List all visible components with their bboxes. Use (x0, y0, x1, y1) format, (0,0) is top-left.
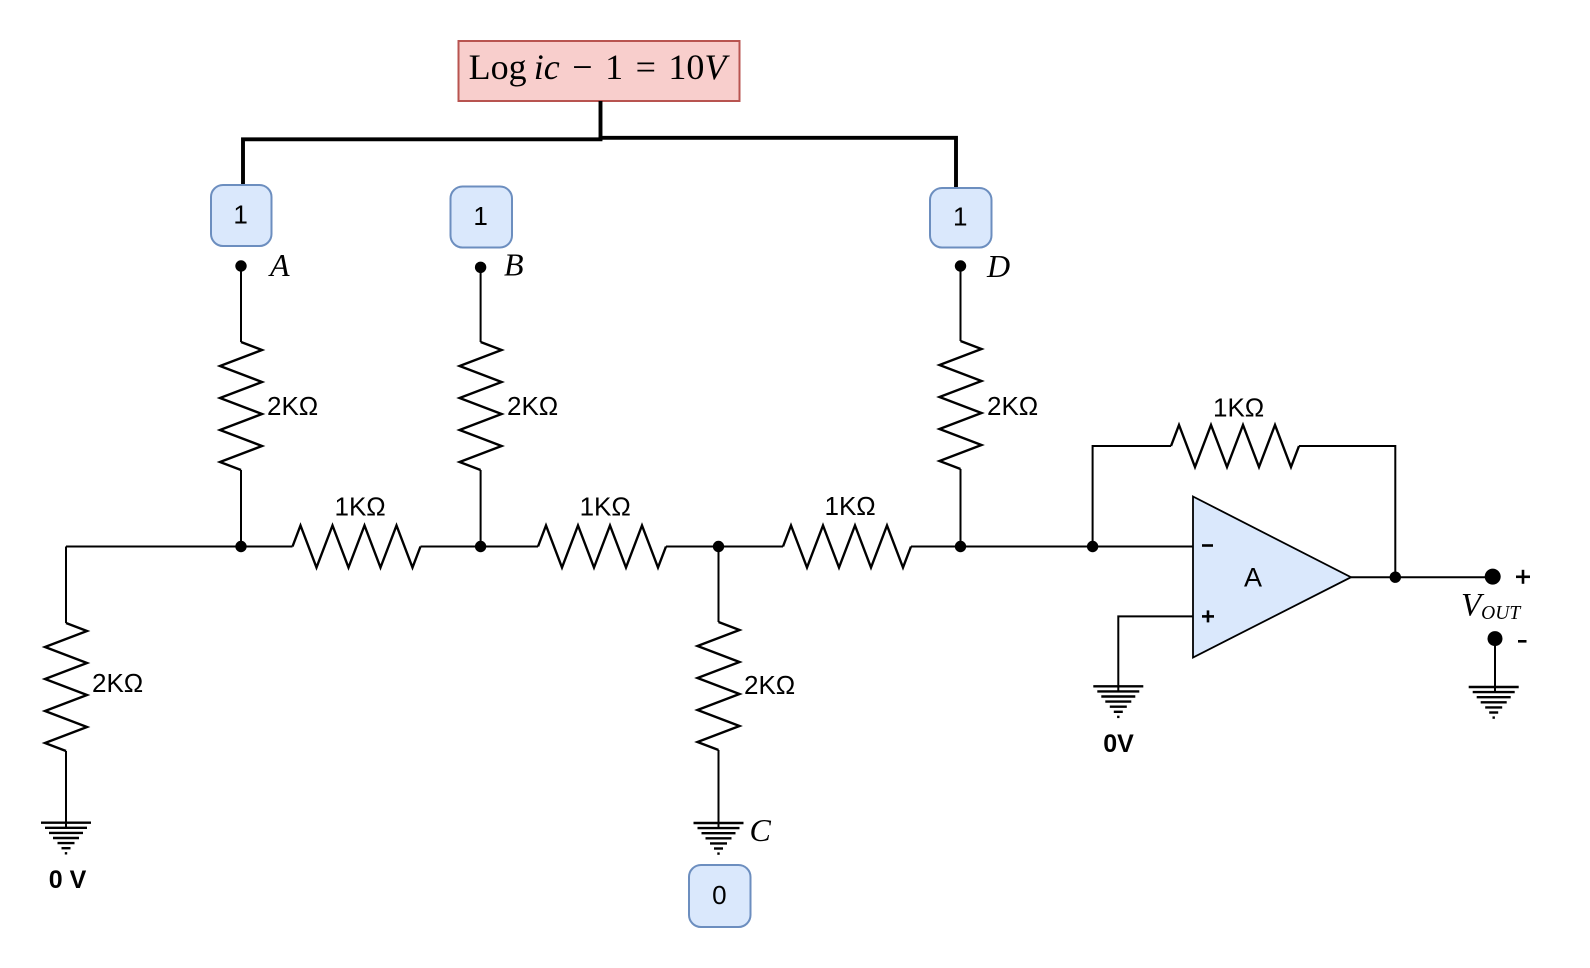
op-amp minus input mark (1202, 544, 1213, 547)
svg-text:0: 0 (712, 880, 726, 910)
svg-text:D: D (986, 248, 1010, 284)
junction dot bus at B (475, 541, 486, 552)
svg-text:B: B (504, 247, 524, 283)
output terminal plus (1485, 569, 1530, 585)
svg-text:2KΩ: 2KΩ (92, 668, 143, 698)
ground op-amp 0V (1093, 686, 1143, 758)
wire thick bus right branch to box D (599, 138, 956, 188)
svg-text:A: A (268, 247, 290, 283)
wire resistor D to bus (960, 469, 962, 547)
input box 1 (D) (930, 188, 992, 248)
wire resistor B to bus (480, 470, 482, 547)
wire resistor A to bus (240, 470, 242, 547)
svg-text:1KΩ: 1KΩ (825, 491, 876, 521)
resistor 1K between A and B (293, 492, 421, 568)
wire bus from R3 to op-amp (911, 546, 1193, 548)
wire node D to resistor (960, 266, 962, 341)
junction dot bus at feedback tap (1087, 541, 1098, 552)
wire bus left end to node A (66, 546, 293, 548)
wire op-amp output (1351, 576, 1493, 578)
resistor 2K D branch (940, 341, 1039, 469)
junction dot feedback/output (1390, 572, 1401, 583)
svg-text:0V: 0V (1103, 730, 1134, 758)
output terminal minus (1488, 631, 1527, 646)
wire node A to resistor (240, 266, 242, 342)
input box 1 (B) (451, 187, 513, 248)
resistor 2K B branch (460, 342, 559, 470)
svg-text:A: A (1244, 563, 1262, 593)
wire op-amp plus input (1118, 616, 1193, 691)
svg-text:VOUT: VOUT (1461, 588, 1521, 625)
resistor 1K between C and D (783, 491, 911, 568)
svg-text:1: 1 (233, 200, 247, 230)
formula box Logic-1=10V (459, 41, 740, 101)
wire thick bus left branch to box A (243, 139, 602, 185)
junction dot bus at D (955, 541, 966, 552)
node D (955, 248, 1010, 284)
wire minus terminal to ground (1494, 646, 1496, 692)
feedback wire down to output (1299, 446, 1395, 577)
wire node B to resistor (480, 267, 482, 342)
svg-text:2KΩ: 2KΩ (267, 391, 318, 421)
input box 0 (C) (689, 865, 751, 927)
resistor 1K feedback (1171, 393, 1299, 468)
resistor 2K C branch (698, 622, 796, 750)
wire bus left corner down (65, 547, 67, 624)
svg-text:1KΩ: 1KΩ (335, 492, 386, 522)
resistor 2K A branch (220, 342, 318, 470)
ground left 0V (41, 823, 91, 894)
input box 1 (A) (211, 185, 272, 246)
wire C resistor to ground (718, 750, 720, 829)
svg-text:1KΩ: 1KΩ (580, 492, 631, 522)
svg-text:Log ic − 1 = 10V: Log ic − 1 = 10V (469, 47, 731, 87)
feedback wire up from bus (1093, 446, 1171, 547)
svg-text:C: C (750, 812, 772, 848)
wire node C down (718, 547, 720, 623)
svg-text:2KΩ: 2KΩ (744, 670, 795, 700)
svg-text:0 V: 0 V (49, 866, 87, 894)
node A (235, 247, 290, 283)
svg-text:1: 1 (473, 201, 487, 231)
svg-text:2KΩ: 2KΩ (507, 391, 558, 421)
wire between R1 and R2 (421, 546, 539, 548)
ground C (694, 823, 744, 854)
junction dot bus at A (235, 541, 246, 552)
wire left resistor to ground (65, 751, 67, 828)
svg-text:1: 1 (953, 202, 967, 232)
node B (475, 247, 524, 283)
op-amp plus input mark (1202, 615, 1214, 618)
junction dot bus at C (713, 541, 724, 552)
svg-text:2KΩ: 2KΩ (987, 391, 1038, 421)
ground output (1469, 687, 1519, 718)
svg-text:1KΩ: 1KΩ (1213, 393, 1264, 423)
wire thick bus from formula box (599, 101, 603, 141)
resistor 1K between B and C (538, 492, 666, 568)
op-amp U1 A (1193, 497, 1351, 658)
resistor 2K left termination (45, 623, 143, 751)
wire between R2 and R3 (666, 546, 783, 548)
